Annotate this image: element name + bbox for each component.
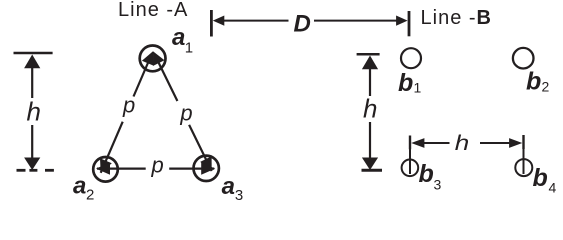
svg-text:b: b [419,160,434,188]
spacing arrow a1-a2 upper segment [134,60,150,97]
svg-text:3: 3 [434,177,442,193]
label b2 [526,68,550,96]
spacing arrow a1-a2 lower segment [101,122,123,173]
right height dimension line upper segment [369,67,371,96]
conductor b1 circle [401,48,421,68]
left height dimension line lower segment [31,125,33,160]
spacing h dimension right bar [522,135,524,149]
label Line -B [421,7,492,29]
dimension D right arrowhead [396,16,408,26]
svg-text:a: a [73,173,86,200]
arrowhead at a1 from a2 [142,51,154,66]
arrowhead at a2 from a1 [100,158,112,173]
spacing arrow a1-a3 upper segment [157,60,177,101]
svg-text:2: 2 [542,79,550,95]
spacing arrow a1-a3 lower segment [189,125,212,171]
label h (left dimension) [27,97,41,127]
spacing h dimension line left segment [423,142,450,144]
svg-text:a: a [222,173,235,200]
right height dimension top bar [357,53,380,56]
svg-text:3: 3 [235,187,243,204]
svg-text:4: 4 [549,180,557,196]
arrowhead at a3 from a2 [201,162,215,174]
svg-text:p: p [151,153,164,178]
label b4 [533,164,557,196]
svg-text:b: b [533,164,548,192]
conductor b2 circle [513,48,534,69]
svg-text:2: 2 [86,187,94,204]
spacing h dimension left bar [409,136,411,150]
label h (spacing dimension) [455,132,470,155]
dimension D arrow line right segment [314,20,399,22]
svg-text:b: b [398,69,413,97]
right height dimension down arrowhead [362,158,378,171]
conductor a3 circle [194,156,219,181]
left height dimension up arrowhead [24,55,40,69]
dimension D left extension bar [210,10,213,37]
spacing h dimension left arrowhead [411,138,424,148]
arrowhead at a2 from a3 [96,162,110,174]
svg-text:Line -A: Line -A [118,0,188,21]
spacing arrow a2-a3 left segment [97,168,146,170]
dimension D arrow line left segment [222,20,289,22]
conductor b4 circle [515,159,532,176]
label a1 [172,24,193,56]
svg-text:1: 1 [414,80,422,96]
conductor a2 circle [93,157,118,182]
label b3 [419,160,442,193]
extension line into b3 [409,149,411,174]
label p left [122,93,135,118]
svg-text:1: 1 [185,39,193,56]
svg-text:b: b [526,68,541,96]
right height dimension up arrowhead [362,56,378,70]
svg-text:p: p [122,93,135,118]
conductor b3 circle [402,160,419,177]
label p bottom [151,153,164,178]
right height dimension bottom bar [362,169,383,172]
svg-text:D: D [294,11,311,38]
label a3 [222,173,244,204]
spacing h dimension right arrowhead [509,138,522,148]
svg-text:h: h [363,93,377,123]
left height dimension dashed ground line [17,169,54,172]
spacing arrow a2-a3 right segment [169,168,214,170]
label Line -A [118,0,188,21]
conductor a1 circle [140,46,166,72]
left height dimension top bar [14,52,53,55]
svg-text:a: a [172,24,185,51]
left height dimension line upper segment [31,66,33,98]
extension line into b4 [523,149,525,174]
label a2 [73,173,94,204]
spacing h dimension line right segment [480,142,511,144]
svg-text:h: h [27,97,41,127]
dimension D left arrowhead [213,16,225,26]
right height dimension line lower segment [369,122,371,160]
dimension D right extension bar [408,11,411,36]
svg-text:p: p [179,100,192,125]
label h (right vertical dimension) [363,93,377,123]
svg-text:h: h [455,132,470,155]
svg-text:Line -B: Line -B [421,7,492,29]
label b1 [398,69,422,97]
left height dimension down arrowhead [24,158,40,171]
arrowhead at a3 from a1 [200,156,212,171]
label p right [179,100,192,125]
label D [294,11,311,38]
arrowhead at a1 from a3 [153,51,165,66]
